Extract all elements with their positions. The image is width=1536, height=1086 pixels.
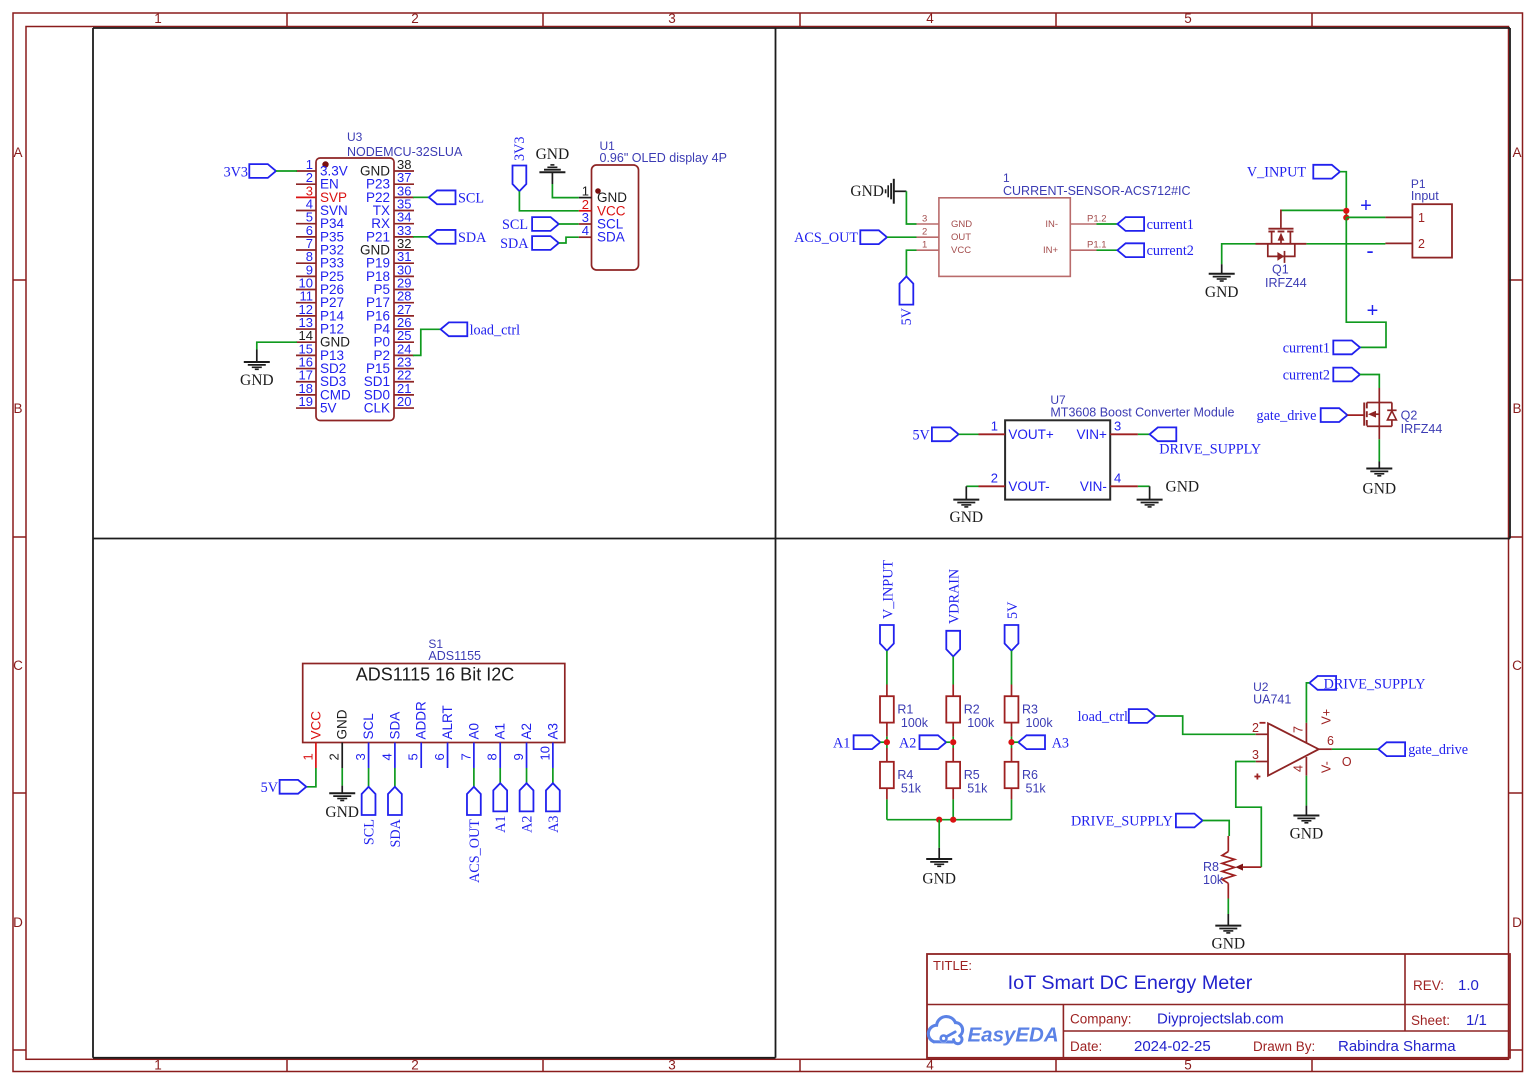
wire U2 output to gate_drive — [1332, 748, 1379, 750]
resistor R1 100k — [886, 685, 888, 697]
wire 3V3 to U3 pin1 — [276, 170, 297, 172]
svg-text:SDA: SDA — [500, 236, 529, 252]
svg-text:5V: 5V — [912, 427, 930, 443]
drawing area vertical divider — [775, 28, 777, 1058]
wire S1 VCC to 5V — [306, 768, 316, 787]
drawing area border top — [93, 27, 1510, 29]
wire junction to P1 pin1 — [1346, 216, 1385, 218]
svg-text:GND: GND — [335, 709, 350, 739]
svg-text:-: - — [1366, 238, 1373, 263]
svg-text:load_ctrl: load_ctrl — [470, 322, 520, 338]
boost module U7 body — [1005, 420, 1110, 499]
svg-text:OUT: OUT — [951, 232, 971, 243]
svg-text:P1.1: P1.1 — [1087, 240, 1107, 251]
U3 pin 8 (P33) — [296, 262, 316, 264]
S1 pin 2 (GND) — [341, 743, 343, 769]
resistor R4 51k — [886, 748, 888, 762]
svg-text:GND: GND — [1363, 481, 1397, 498]
svg-text:Rabindra Sharma: Rabindra Sharma — [1338, 1038, 1456, 1055]
wire S1 A2 to port — [526, 768, 528, 783]
svg-text:1: 1 — [991, 418, 998, 433]
svg-text:CLK: CLK — [364, 401, 390, 416]
svg-text:SDA: SDA — [597, 230, 625, 245]
svg-text:2024-02-25: 2024-02-25 — [1134, 1038, 1211, 1055]
connector P1 body — [1412, 204, 1452, 257]
P1 pin 1 — [1385, 216, 1412, 218]
wire U7 VIN- to ground — [1138, 485, 1150, 487]
svg-text:current2: current2 — [1283, 368, 1330, 384]
frame column ticks bottom — [286, 1059, 288, 1071]
U3 pin 17 (SD3) — [296, 381, 316, 383]
svg-text:SCL: SCL — [362, 819, 378, 845]
ACS712 pin 1 (VCC) — [917, 249, 939, 251]
U7 pin 4 (VIN-) — [1110, 485, 1138, 487]
U2 pin 2 (inverting) — [1256, 733, 1268, 735]
port SDA at S1 — [388, 787, 402, 815]
svg-text:+: + — [1360, 195, 1372, 217]
ground at U3 — [256, 350, 258, 363]
port A1 at S1 — [493, 783, 507, 811]
wire U7 VOUT- to ground — [966, 485, 978, 487]
ACS712 pin P1.1 (IN+) — [1070, 249, 1096, 251]
wire current2 to Q2 drain — [1360, 375, 1379, 389]
port gate_drive at U2 — [1378, 742, 1405, 756]
svg-text:7: 7 — [458, 753, 473, 760]
svg-text:3: 3 — [353, 753, 368, 760]
svg-text:3: 3 — [1114, 418, 1121, 433]
svg-text:Diyprojectslab.com: Diyprojectslab.com — [1157, 1011, 1284, 1028]
svg-text:Date:: Date: — [1070, 1039, 1102, 1054]
port DRIVE_SUPPLY at U7 — [1150, 427, 1177, 441]
wire V_INPUT to R1 — [886, 651, 888, 685]
ground at Q2 — [1378, 462, 1380, 469]
wire S1 GND pin to ground — [341, 768, 343, 786]
svg-text:2: 2 — [991, 470, 998, 485]
U3 pin 11 (P27) — [296, 302, 316, 304]
svg-text:7: 7 — [1292, 726, 1306, 733]
U3 pin 16 (SD2) — [296, 368, 316, 370]
node junction bus-GND — [936, 817, 942, 823]
svg-text:1.0: 1.0 — [1458, 977, 1479, 994]
svg-text:51k: 51k — [901, 782, 922, 796]
ground at Q1 — [1221, 264, 1223, 274]
U1 pin 4 (SDA) — [579, 236, 592, 238]
svg-text:IRFZ44: IRFZ44 — [1265, 276, 1307, 290]
svg-text:VOUT-: VOUT- — [1008, 479, 1049, 494]
U3 pin 13 (P12) — [296, 328, 316, 330]
U3 pin 28 (P17) — [394, 302, 414, 304]
wire ACS_OUT to ACS712 OUT — [887, 236, 917, 238]
svg-text:4: 4 — [379, 753, 394, 760]
U3 pin 27 (P16) — [394, 315, 414, 317]
ground at R8 — [1227, 914, 1229, 926]
svg-text:EasyEDA: EasyEDA — [968, 1024, 1059, 1047]
svg-text:UA741: UA741 — [1253, 693, 1291, 707]
wire ACS712 IN+ to current2 — [1097, 249, 1118, 251]
current sensor ACS712 body — [939, 198, 1070, 277]
U3 pin 9 (P25) — [296, 275, 316, 277]
U3 pin 19 (5V) — [296, 407, 316, 409]
svg-text:R1: R1 — [897, 703, 913, 717]
transistor Q2 IRFZ44 — [1378, 388, 1380, 403]
svg-text:A2: A2 — [899, 736, 916, 752]
oled U1 body — [592, 165, 639, 270]
svg-text:DRIVE_SUPPLY: DRIVE_SUPPLY — [1159, 442, 1261, 458]
port 5V at ACS712 — [900, 276, 914, 304]
svg-text:R4: R4 — [897, 768, 913, 782]
wire U1 GND pin to ground — [552, 184, 578, 198]
svg-text:4: 4 — [582, 223, 589, 238]
svg-text:1: 1 — [154, 11, 162, 26]
U1 pin 2 (VCC) — [579, 210, 592, 212]
svg-text:ACS_OUT: ACS_OUT — [794, 230, 858, 246]
svg-text:V_INPUT: V_INPUT — [1247, 165, 1306, 181]
svg-text:D: D — [13, 915, 23, 930]
svg-text:GND: GND — [1212, 936, 1246, 953]
svg-text:GND: GND — [950, 509, 984, 526]
U7 pin 3 (VIN+) — [1110, 433, 1138, 435]
svg-text:19: 19 — [299, 394, 313, 409]
svg-text:GND: GND — [951, 219, 972, 230]
U3 pin 2 (EN) — [296, 183, 316, 185]
svg-text:3V3: 3V3 — [224, 165, 248, 181]
U3 pin 20 (CLK) — [394, 407, 414, 409]
svg-text:VIN-: VIN- — [1080, 479, 1107, 494]
wire to divider midpoint — [886, 737, 888, 743]
svg-text:A0: A0 — [466, 723, 481, 740]
svg-text:2: 2 — [327, 753, 342, 760]
U3 pin 12 (P14) — [296, 315, 316, 317]
svg-text:IRFZ44: IRFZ44 — [1401, 422, 1443, 436]
wire S1 A0 to ACS_OUT — [473, 768, 475, 787]
U3 pin 34 (RX) — [394, 223, 414, 225]
U2 pin 4 (V-) — [1305, 757, 1307, 776]
resistor R6 51k — [1011, 748, 1013, 762]
ACS712 pin 3 (GND) — [917, 223, 939, 225]
U3 pin-1 dot — [322, 161, 328, 167]
svg-text:5V: 5V — [899, 307, 915, 325]
svg-text:A1: A1 — [833, 736, 850, 752]
drawing area horizontal divider — [93, 538, 1510, 540]
wire R8 to ground — [1227, 899, 1229, 915]
resistor R5 51k — [952, 748, 954, 762]
svg-text:GND: GND — [240, 372, 274, 389]
svg-text:DRIVE_SUPPLY: DRIVE_SUPPLY — [1324, 677, 1426, 693]
U3 pin 21 (SD0) — [394, 394, 414, 396]
node junction V_INPUT lower — [1343, 215, 1349, 221]
svg-text:8: 8 — [485, 753, 500, 760]
S1 pin 5 (ADDR) — [420, 743, 422, 769]
U3 pin 22 (SD1) — [394, 381, 414, 383]
wire ground to ACS712 GND pin — [906, 191, 916, 224]
svg-text:R6: R6 — [1022, 768, 1038, 782]
wire U3 P22 to SCL — [413, 196, 429, 198]
svg-text:4: 4 — [926, 11, 934, 26]
S1 pin 4 (SDA) — [394, 743, 396, 769]
svg-text:1: 1 — [154, 1058, 162, 1073]
drawing area border bottom left half — [93, 1057, 776, 1059]
svg-text:gate_drive: gate_drive — [1408, 742, 1468, 758]
svg-text:current1: current1 — [1283, 340, 1330, 356]
port current1 at ACS712 — [1117, 217, 1144, 231]
svg-text:REV:: REV: — [1413, 978, 1444, 993]
svg-text:MT3608 Boost Converter Module: MT3608 Boost Converter Module — [1050, 406, 1234, 420]
wire 3V3 to U1 VCC — [519, 191, 578, 211]
wire vertical V_INPUT to current1 branch — [1346, 217, 1386, 347]
svg-text:3: 3 — [668, 1058, 676, 1073]
svg-text:1: 1 — [1003, 171, 1010, 185]
wire load_ctrl to U2 pin2 — [1156, 716, 1256, 734]
svg-text:gate_drive: gate_drive — [1257, 408, 1317, 424]
U3 pin 14 (GND) — [296, 341, 316, 343]
wire SCL to U1 — [559, 223, 579, 225]
svg-text:A2: A2 — [519, 723, 534, 740]
svg-text:IN+: IN+ — [1043, 245, 1059, 256]
port DRIVE_SUPPLY at U2 — [1309, 676, 1336, 690]
U3 pin 26 (P4) — [394, 328, 414, 330]
EasyEDA logo cloud — [928, 1017, 962, 1044]
svg-text:CURRENT-SENSOR-ACS712#IC: CURRENT-SENSOR-ACS712#IC — [1003, 184, 1191, 198]
svg-text:current1: current1 — [1147, 217, 1194, 233]
svg-text:5V: 5V — [320, 401, 337, 416]
wire U2 pin3 to R8 wiper — [1236, 762, 1262, 868]
S1 pin 9 (A2) — [526, 743, 528, 769]
svg-text:Q2: Q2 — [1401, 409, 1418, 423]
port SCL at S1 — [362, 787, 376, 815]
svg-text:A2: A2 — [520, 816, 536, 833]
svg-text:1/1: 1/1 — [1466, 1012, 1487, 1029]
wire R5 to ground bus — [952, 799, 954, 819]
wire to divider midpoint — [1011, 737, 1013, 743]
port A2 at S1 — [520, 783, 534, 811]
frame row ticks right — [1509, 279, 1523, 281]
svg-text:6: 6 — [432, 753, 447, 760]
port SCL at U3 — [429, 190, 456, 204]
mcu U3 body — [316, 158, 394, 421]
U3 pin 18 (CMD) — [296, 394, 316, 396]
svg-text:R5: R5 — [964, 768, 980, 782]
svg-text:9: 9 — [511, 753, 526, 760]
svg-text:5: 5 — [1184, 1058, 1192, 1073]
node junction A1 tap — [884, 739, 890, 745]
svg-text:100k: 100k — [1026, 716, 1054, 730]
node junction bus-R5 — [950, 817, 956, 823]
U1 pin 3 (SCL) — [579, 223, 592, 225]
adc S1 ADS1115 body — [303, 664, 565, 743]
wire U3 P2 to load_ctrl — [413, 329, 441, 355]
wire R4 to ground bus — [886, 799, 888, 819]
svg-text:A1: A1 — [493, 816, 509, 833]
svg-text:2: 2 — [411, 1058, 419, 1073]
svg-text:SDA: SDA — [458, 230, 487, 246]
U3 pin 15 (P13) — [296, 354, 316, 356]
svg-text:GND: GND — [1166, 479, 1200, 496]
svg-text:V_INPUT: V_INPUT — [880, 560, 896, 619]
title block divider lines — [927, 1004, 1510, 1006]
svg-text:GND: GND — [850, 183, 884, 200]
svg-text:V-: V- — [1320, 761, 1334, 773]
svg-text:SCL: SCL — [458, 190, 484, 206]
port A3 at S1 — [546, 783, 560, 811]
op-amp U2 triangle — [1268, 723, 1319, 775]
svg-text:2: 2 — [411, 11, 419, 26]
svg-text:4: 4 — [1292, 765, 1306, 772]
U3 pin 33 (P21) — [394, 236, 414, 238]
svg-text:P1.2: P1.2 — [1087, 214, 1107, 225]
S1 pin 10 (A3) — [552, 743, 554, 769]
svg-text:ADS1115 16 Bit I2C: ADS1115 16 Bit I2C — [356, 665, 514, 685]
U3 pin 29 (P5) — [394, 289, 414, 291]
potentiometer R8 10k — [1227, 836, 1229, 852]
node junction A3 tap — [1008, 739, 1014, 745]
svg-text:3: 3 — [668, 11, 676, 26]
svg-text:D: D — [1512, 915, 1522, 930]
svg-text:3: 3 — [1252, 748, 1259, 762]
U3 pin 4 (SVN) — [296, 210, 316, 212]
port current2 at ACS712 — [1117, 243, 1144, 257]
svg-text:load_ctrl: load_ctrl — [1078, 709, 1128, 725]
U7 pin 2 (VOUT-) — [979, 485, 1006, 487]
svg-text:2: 2 — [1252, 721, 1259, 735]
svg-text:ADDR: ADDR — [414, 701, 429, 740]
svg-text:VDRAIN: VDRAIN — [947, 569, 963, 624]
U3 pin 37 (P23) — [394, 183, 414, 185]
svg-text:5: 5 — [406, 753, 421, 760]
node junction A2 tap — [950, 739, 956, 745]
svg-text:100k: 100k — [901, 716, 929, 730]
svg-text:51k: 51k — [967, 782, 988, 796]
svg-text:R3: R3 — [1022, 703, 1038, 717]
U3 pin 23 (P15) — [394, 368, 414, 370]
U1 pin 1 (GND) — [579, 197, 592, 199]
wire 5V to R3 — [1011, 651, 1013, 685]
drawing area border left — [92, 28, 94, 1058]
svg-text:VCC: VCC — [308, 711, 323, 740]
ground at divider bus — [938, 848, 940, 859]
svg-text:GND: GND — [536, 146, 570, 163]
svg-text:5: 5 — [1184, 11, 1192, 26]
wire S1 SDA to port — [394, 768, 396, 787]
U2 pin 7 (V+) — [1305, 723, 1307, 743]
svg-text:GND: GND — [325, 804, 359, 821]
wire Q2 source to ground — [1378, 439, 1380, 461]
ground symbol at U1 (inverted) — [550, 164, 554, 166]
S1 pin 8 (A1) — [499, 743, 501, 769]
svg-text:ACS_OUT: ACS_OUT — [467, 819, 483, 883]
wire Q1 drain to P1 pin2 — [1306, 243, 1385, 245]
wire SDA to U1 — [559, 237, 579, 243]
port load_ctrl at U3 — [441, 322, 468, 336]
node junction V_INPUT upper — [1343, 208, 1349, 214]
S1 pin 1 (VCC) — [315, 743, 317, 769]
svg-text:2: 2 — [1418, 237, 1425, 251]
svg-text:VIN+: VIN+ — [1077, 427, 1108, 442]
svg-text:A: A — [1512, 145, 1521, 160]
U3 pin 35 (TX) — [394, 210, 414, 212]
svg-text:Q1: Q1 — [1272, 263, 1289, 277]
wire to divider midpoint — [952, 737, 954, 743]
ACS712 pin P1.2 (IN-) — [1070, 223, 1096, 225]
wire junction to Q1 gate — [1281, 209, 1346, 211]
svg-text:ADS1155: ADS1155 — [428, 649, 481, 663]
svg-text:Company:: Company: — [1070, 1012, 1132, 1027]
wire ACS712 VCC to 5V — [906, 250, 916, 276]
wire DRIVE_SUPPLY to R8 — [1203, 821, 1230, 837]
wire bus to ground — [938, 820, 940, 848]
svg-text:R8: R8 — [1203, 860, 1219, 874]
wire Q1 source to ground — [1222, 244, 1256, 264]
U2 pin 3 (non-inverting) — [1256, 761, 1268, 763]
wire gate_drive to Q2 gate — [1347, 414, 1364, 416]
svg-text:GND: GND — [922, 871, 956, 888]
svg-text:A3: A3 — [545, 723, 560, 740]
U7 pin 1 (VOUT+) — [979, 433, 1006, 435]
U3 pin 31 (P19) — [394, 262, 414, 264]
svg-text:20: 20 — [397, 394, 411, 409]
svg-text:100k: 100k — [967, 716, 995, 730]
U2 pin 6 (output) — [1319, 748, 1332, 750]
svg-text:Sheet:: Sheet: — [1411, 1013, 1450, 1028]
wire U7 VIN+ to DRIVE_SUPPLY — [1138, 433, 1150, 435]
U3 pin 36 (P22) — [394, 196, 414, 198]
svg-text:GND: GND — [1290, 826, 1324, 843]
resistor R2 100k — [952, 685, 954, 697]
svg-text:1: 1 — [1418, 211, 1425, 225]
transistor Q1 IRFZ44 — [1280, 210, 1282, 228]
wire VDRAIN to R2 — [952, 657, 954, 685]
wire U3 P21 to SDA — [413, 236, 429, 238]
svg-text:5V: 5V — [1005, 601, 1021, 619]
wire V_INPUT down to junction — [1340, 172, 1346, 218]
svg-text:IN-: IN- — [1045, 219, 1058, 230]
svg-text:IoT Smart DC Energy Meter: IoT Smart DC Energy Meter — [1008, 972, 1253, 994]
svg-text:ALRT: ALRT — [440, 705, 455, 739]
svg-text:V+: V+ — [1320, 709, 1334, 725]
wire 5V to U7 VOUT+ — [959, 433, 979, 435]
svg-text:A3: A3 — [1052, 736, 1069, 752]
wire U3 GND pin14 to ground — [257, 342, 297, 349]
ACS712 pin 2 (OUT) — [917, 236, 939, 238]
svg-text:B: B — [1512, 401, 1521, 416]
svg-text:Drawn By:: Drawn By: — [1253, 1039, 1315, 1054]
U3 pin 25 (P0) — [394, 341, 414, 343]
U3 pin 38 (GND) — [394, 170, 414, 172]
svg-text:VOUT+: VOUT+ — [1008, 427, 1054, 442]
svg-text:3V3: 3V3 — [512, 137, 528, 161]
svg-text:DRIVE_SUPPLY: DRIVE_SUPPLY — [1071, 814, 1173, 830]
wire U2 V- to ground — [1305, 776, 1307, 806]
svg-text:5V: 5V — [261, 780, 279, 796]
wire S1 SCL to port — [368, 768, 370, 787]
svg-text:A: A — [13, 145, 22, 160]
svg-text:51k: 51k — [1026, 782, 1047, 796]
svg-text:GND: GND — [1205, 284, 1239, 301]
U3 pin 5 (P34) — [296, 223, 316, 225]
svg-text:4: 4 — [926, 1058, 934, 1073]
svg-text:VCC: VCC — [951, 245, 971, 256]
ground at U2 — [1305, 806, 1307, 816]
U3 pin 1 (3.3V) — [296, 170, 316, 172]
ground at S1 — [341, 786, 343, 794]
svg-text:4: 4 — [1114, 470, 1121, 485]
svg-text:A1: A1 — [493, 723, 508, 740]
wire ACS712 IN- to current1 — [1097, 223, 1118, 225]
wire ground bus — [887, 819, 1012, 821]
svg-text:O: O — [1342, 755, 1352, 769]
S1 pin 6 (ALRT) — [447, 743, 449, 769]
U3 pin 30 (P18) — [394, 275, 414, 277]
svg-text:TITLE:: TITLE: — [933, 958, 972, 973]
